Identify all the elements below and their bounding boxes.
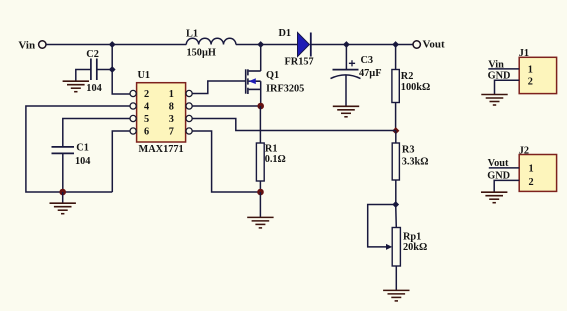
U1 pin 6 [130,126,149,137]
capacitor C3 47uF electrolytic [331,60,361,78]
svg-text:2: 2 [528,77,533,88]
wire wiper node to Rp1 top [395,205,398,228]
node junction at R2 tap [392,41,399,48]
svg-text:R3: R3 [402,144,415,155]
wire Q1 drain up [260,45,262,72]
svg-text:3: 3 [169,114,174,125]
ground for R1 [247,217,273,228]
U1 pin 7 [169,126,193,137]
wire pin5 to C1 [63,119,130,147]
wire C2 right lead [97,69,112,71]
svg-text:4: 4 [144,101,149,112]
U1 pin 5 [130,114,149,125]
svg-text:R1: R1 [265,143,278,154]
node junction at Vin/C2 tap [109,41,116,48]
wire pin7 to R1 bottom node [192,131,260,192]
port Vout terminal [413,39,445,51]
wire down to ground [259,192,261,217]
wire Rp1 bottom to ground [395,266,397,290]
capacitor C2 [91,59,97,81]
svg-text:Rp1: Rp1 [403,232,421,243]
wire R3 bottom to wiper node [395,180,397,205]
transistor Q1 IRF3205 [246,69,261,94]
wire C3 top [345,45,347,70]
wire ground stub [62,192,64,203]
svg-text:100kΩ: 100kΩ [401,82,430,93]
port Vin terminal [18,39,46,51]
svg-text:47µF: 47µF [359,68,382,79]
capacitor C1 [52,147,75,154]
svg-text:FR157: FR157 [285,57,314,68]
wire C1 bottom to ground rail [62,153,64,192]
U1 pin 1 [169,89,193,100]
svg-text:Vin: Vin [18,39,35,51]
wire pin8 to Q1 source node [192,105,261,107]
ground for C3 [333,106,359,117]
ground for C1 rail [50,203,76,214]
wire Q1 source down [260,81,262,106]
wire J2 pin1 [489,167,519,169]
wire pin3 to FB node [192,119,396,131]
svg-text:20kΩ: 20kΩ [403,242,427,253]
ground for Rp1 [383,290,409,301]
wire Vin to L1 [46,44,186,46]
wire J1 pin2 to ground [495,80,520,94]
node junction at C2 connection [109,66,116,73]
ground for C2 [63,81,89,92]
svg-text:MAX1771: MAX1771 [139,144,184,155]
U1 pin 3 [169,114,193,125]
svg-text:C2: C2 [86,49,99,60]
wire L1 to D1 [236,44,298,46]
svg-text:3.3kΩ: 3.3kΩ [402,157,429,168]
svg-text:J2: J2 [519,146,529,157]
wire pin6 down to ground rail [112,131,130,192]
U1 pin 4 [130,101,149,112]
wire R2 bottom to FB node [395,103,397,131]
node junction ground rail [59,189,66,196]
svg-text:8: 8 [169,101,174,112]
node junction R1 bottom / pin7 [257,189,264,196]
svg-text:6: 6 [144,126,149,137]
wire pin4 to ground rail [26,106,130,192]
svg-text:1: 1 [528,64,533,75]
diode D1 FR157 [298,33,311,57]
wire C3 bottom to ground [345,75,347,106]
svg-text:2: 2 [144,89,149,100]
U1 pin 2 [130,89,149,100]
wire node to R1 top [259,106,261,143]
resistor R3 [392,143,399,180]
svg-text:Vout: Vout [423,39,446,51]
connector J2 body [519,155,556,192]
wire D1 to Vout [311,44,413,46]
wire R2 top [395,45,397,70]
connector J1 body [519,57,556,93]
node junction Q1 source / pin8 / R1 [257,103,264,110]
svg-text:R2: R2 [401,71,414,82]
svg-text:104: 104 [75,156,90,167]
node junction at C3 tap [343,41,350,48]
wire J2 pin2 to ground [494,180,519,192]
resistor R1 [256,143,264,181]
potentiometer Rp1 [392,228,400,267]
svg-text:IRF3205: IRF3205 [266,84,304,95]
ground for J2 [481,192,507,203]
svg-text:0.1Ω: 0.1Ω [265,154,286,165]
node wiper junction [392,201,399,208]
svg-text:1: 1 [529,163,534,174]
svg-text:U1: U1 [138,70,151,81]
resistor R2 [392,70,399,103]
node FB junction [392,127,399,134]
svg-text:7: 7 [169,126,174,137]
U1 pin 8 [169,101,193,112]
wire J1 pin1 [488,68,519,70]
wire wiper loop [368,205,396,247]
wire pin1 to Q1 gate [192,81,246,94]
node junction at Q1 drain tap [257,41,264,48]
IC U1 MAX1771 body [137,83,186,142]
svg-text:Q1: Q1 [266,70,279,81]
inductor L1 [186,38,236,44]
wire R1 bottom [259,181,261,192]
potentiometer Rp1 wiper arrow [386,244,392,250]
svg-text:D1: D1 [279,28,292,39]
svg-text:2: 2 [529,177,534,188]
svg-text:5: 5 [144,114,149,125]
svg-text:1: 1 [169,89,174,100]
svg-text:L1: L1 [186,28,198,39]
svg-text:104: 104 [86,83,101,94]
ground for J1 [481,95,507,106]
wire C2 left lead to ground [76,70,91,82]
svg-text:C1: C1 [76,142,89,153]
wire FB node to R3 [395,131,397,143]
wire C2 tap down to U1 pin 2 [112,45,130,95]
svg-text:150µH: 150µH [187,48,216,59]
svg-text:J1: J1 [519,48,529,59]
svg-text:C3: C3 [361,55,374,66]
